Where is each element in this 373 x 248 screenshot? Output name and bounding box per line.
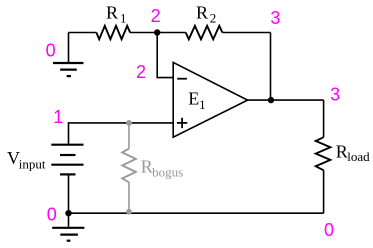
svg-text:3: 3 (270, 8, 280, 28)
svg-text:0: 0 (47, 204, 57, 224)
svg-text:load: load (347, 149, 370, 164)
wire feedback vertical down to output (270, 33, 272, 101)
svg-text:1: 1 (120, 10, 127, 25)
wire op-amp output (248, 99, 324, 101)
wire node 1 rail (battery top to + input) (69, 123, 174, 145)
svg-text:R: R (336, 142, 348, 162)
svg-text:2: 2 (210, 10, 217, 25)
ground G2 (bottom left) (52, 213, 84, 241)
wire Rload to bottom rail (323, 170, 325, 213)
svg-text:1: 1 (53, 107, 63, 127)
resistor R1 (96, 26, 130, 40)
svg-text:1: 1 (199, 97, 206, 112)
svg-text:input: input (19, 157, 46, 172)
op-amp minus sign (177, 78, 187, 80)
svg-text:R: R (106, 3, 118, 23)
wire bottom rail (69, 212, 324, 214)
node 2 junction dot (154, 29, 160, 35)
output node 3 junction dot (268, 97, 274, 103)
node 0 junction dot (bottom left) (65, 210, 71, 216)
svg-text:2: 2 (136, 62, 146, 82)
svg-text:2: 2 (151, 6, 161, 26)
wire output corner down to Rload (323, 100, 325, 137)
resistor R2 (186, 26, 223, 40)
svg-text:E: E (188, 88, 199, 108)
battery Vinput (51, 145, 83, 214)
Rbogus top junction dot (gray) (126, 120, 132, 126)
svg-text:0: 0 (46, 41, 56, 61)
svg-text:0: 0 (324, 220, 334, 240)
wire R1 to node 2 to R2 (130, 32, 186, 34)
svg-text:R: R (196, 3, 208, 23)
svg-text:R: R (141, 157, 153, 177)
ground G1 (top left) (53, 33, 84, 77)
Rbogus bottom junction dot (gray) (126, 209, 132, 215)
op-amp E1 triangle (173, 62, 247, 137)
svg-text:bogus: bogus (152, 165, 183, 180)
resistor Rbogus (gray) (122, 123, 136, 212)
wire ground to R1 (69, 32, 97, 34)
op-amp plus sign (177, 118, 187, 128)
svg-text:3: 3 (330, 84, 340, 104)
resistor Rload (316, 137, 331, 170)
wire R2 to top-right corner (222, 32, 270, 34)
wire node 2 down to inverting input (157, 33, 173, 78)
